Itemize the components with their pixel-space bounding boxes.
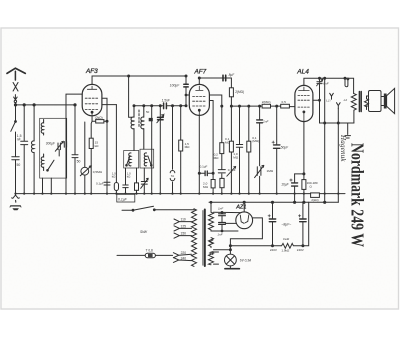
wire V x=34.1 (33, 105, 35, 194)
rail2 PSU y=202.3 (209, 201, 338, 203)
resistor 0,5 horizontal (281, 104, 290, 108)
wire V x=338.3 to rail2 (337, 109, 339, 203)
ground bus y=191 (16, 193, 346, 195)
wire V x=231.4 lower with resistor (229, 106, 233, 194)
svg-text:MΩ: MΩ (185, 145, 191, 149)
speaker cone (387, 88, 395, 113)
electrolytic 10uF (290, 174, 298, 202)
coil L1 on x=34.1 (31, 141, 34, 153)
AF3 grid wire left (66, 94, 82, 194)
svg-text:50: 50 (77, 160, 81, 164)
secondary HT winding (209, 212, 214, 231)
svg-text:1,5nF: 1,5nF (162, 98, 171, 102)
stub coil box bottoms to bus (43, 178, 52, 194)
voltage tap 150 (174, 233, 192, 238)
capacitor on x=221.8 (218, 170, 225, 173)
resistor on x=231.4 (229, 88, 233, 106)
pot arrow on x=231.4 (227, 166, 236, 176)
svg-text:TA: TA (171, 174, 175, 178)
secondary 4V winding 1 (209, 238, 214, 248)
AZ1 plate lead up (243, 202, 245, 212)
AF3 internals (85, 86, 99, 116)
coil L3 in box (41, 154, 43, 171)
B+ vertical x=324.7 (324, 78, 326, 202)
output transformer secondary (365, 96, 369, 110)
grid capacitor 100pF vertical at x=186 (184, 75, 190, 107)
svg-text:220: 220 (181, 251, 187, 255)
voltage tap 220 fuse feed (173, 253, 191, 258)
resistor on x=221.8 (220, 143, 224, 154)
svg-text:100µF: 100µF (170, 84, 180, 88)
tone capacitor on rail E (317, 78, 323, 123)
svg-text:kΩ: kΩ (127, 174, 131, 178)
svg-text:(2kΩ): (2kΩ) (95, 116, 103, 120)
svg-text:150: 150 (181, 232, 187, 236)
svg-text:240V: 240V (270, 248, 277, 252)
AF3 cathode resistor 2k (92, 116, 108, 123)
power transformer primary (192, 209, 197, 267)
wave range box 1 (124, 151, 139, 169)
svg-text:300µF: 300µF (46, 141, 55, 145)
coil in box2 (144, 153, 146, 166)
capacitor on x=75 (72, 155, 78, 158)
filament stub arrows (214, 252, 219, 264)
mains switch (122, 206, 194, 211)
resistor on x=116.7 near bus (114, 105, 118, 194)
svg-text:Feld: Feld (283, 237, 289, 241)
svg-text:110: 110 (181, 218, 186, 222)
svg-text:1,9kΩ: 1,9kΩ (281, 249, 290, 253)
capacitor antenna series (12, 157, 19, 194)
antenna connector arrow (14, 95, 18, 105)
coil L2 in box (41, 120, 43, 136)
transformer core (204, 210, 206, 267)
blade in box1 (126, 156, 130, 166)
antenna spark-gap X (13, 83, 18, 92)
cathode resistor 160-180 (302, 180, 306, 190)
svg-text:AF3: AF3 (85, 68, 98, 75)
AZ1 output lead (230, 218, 262, 254)
speaker magnet bar (381, 94, 387, 109)
voltage tap 240 (173, 258, 191, 263)
AL4 screen stub (313, 99, 320, 101)
svg-text:~8µF~: ~8µF~ (281, 222, 291, 226)
svg-text:2(kΩ): 2(kΩ) (311, 198, 318, 202)
HT top lead to AZ1 (210, 201, 240, 212)
capacitor right edge of box (64, 142, 66, 148)
voltage tap 110 (174, 219, 192, 224)
matching box on x=344 (345, 78, 349, 87)
output transformer core (359, 92, 361, 112)
bandfilter coil secondary (141, 106, 144, 149)
svg-text:0,1µF: 0,1µF (96, 182, 104, 186)
electrolytic 8uF on rail C (223, 75, 226, 81)
bandfilter coil primary (131, 106, 134, 151)
wire antenna down (15, 105, 17, 121)
svg-text:240V: 240V (297, 248, 304, 252)
chassis mark (345, 123, 351, 138)
svg-text:240: 240 (181, 257, 187, 261)
wire V x=239.5 with capacitor (236, 106, 242, 194)
svg-text:nF: nF (17, 138, 21, 142)
trimmer potentiometer mid (255, 165, 264, 177)
cap stub left of box1 (123, 168, 128, 194)
svg-text:kΩ: kΩ (112, 174, 116, 178)
speaker plug fork L1 (330, 93, 334, 99)
svg-text:50µF: 50µF (281, 145, 289, 149)
svg-text:2(MΩ): 2(MΩ) (235, 90, 244, 94)
smoothing cap 8uF no1 (268, 202, 276, 246)
svg-text:160-180: 160-180 (307, 181, 318, 185)
speaker frame (367, 91, 382, 112)
coil box (screened antenna coil unit) (40, 118, 67, 178)
svg-text:Nordmark 249 W: Nordmark 249 W (347, 143, 368, 248)
pickup connector TA on x=172.5 (170, 106, 175, 194)
resistor 2M horizontal (262, 104, 270, 108)
switch S1 antenna (11, 121, 17, 157)
coupling link cap 0,1uF (198, 171, 214, 176)
potentiometer volume (80, 166, 91, 176)
svg-text:L2: L2 (344, 98, 348, 102)
lamp feed from 4V winding (210, 240, 231, 255)
transformer return rail F y=123 (320, 122, 354, 124)
fuse line (117, 254, 173, 256)
wave switch blade in box (47, 160, 54, 171)
wire V x=276.7 with electrolytic 50uF (272, 106, 280, 194)
anode rail D y=106.1 (221, 105, 295, 107)
svg-text:50: 50 (146, 110, 150, 114)
blade in box2 (148, 156, 152, 166)
AF3 screen wire right (102, 98, 117, 193)
svg-text:T 0,8: T 0,8 (146, 249, 153, 253)
svg-text:1MΩ: 1MΩ (267, 169, 274, 173)
antenna (7, 68, 25, 73)
anode stub into coil top (129, 76, 132, 117)
output transformer primary zigzag (351, 93, 356, 123)
capacitor on x=24.2 (21, 141, 28, 144)
svg-text:(MΩ): (MΩ) (252, 139, 259, 143)
filament caps stack (219, 212, 237, 232)
svg-text:MΩ: MΩ (214, 156, 220, 160)
svg-text:L1↑: L1↑ (326, 99, 331, 103)
svg-text:10µF: 10µF (281, 183, 289, 187)
speaker plug fork L2 (337, 103, 341, 109)
svg-text:kΩ: kΩ (95, 144, 100, 148)
wire V x=24.2 (23, 105, 25, 194)
coil in box1 (129, 153, 131, 166)
secondary 4V winding 2 (209, 252, 214, 265)
svg-text:2(MΩ): 2(MΩ) (262, 100, 271, 104)
svg-text:AF7: AF7 (194, 69, 207, 76)
svg-text:0,5: 0,5 (282, 100, 287, 104)
grid leak rail y=105.8 (133, 105, 186, 107)
wire V x=75 grid line (74, 105, 76, 194)
AF7 anode rail C (198, 77, 231, 90)
svg-text:MΩ: MΩ (203, 185, 209, 189)
resistor 2k on bus (311, 193, 320, 198)
svg-text:125: 125 (181, 224, 187, 228)
svg-text:MΩ: MΩ (233, 155, 239, 159)
wire V x=259.6 with cap 2nF (257, 106, 263, 194)
svg-text:0,1µF: 0,1µF (200, 165, 208, 169)
box2 bottom trimmer to bus (141, 168, 149, 194)
wire V x=91.2 with resistor (89, 121, 93, 193)
AL4 cathode branch (295, 122, 305, 203)
resistor lower on x=221.8 (220, 178, 224, 187)
resistor lower on x=213.1 (211, 180, 215, 188)
fuse T0,8 (145, 253, 155, 257)
wire V x=83 (84, 122, 86, 194)
svg-text:1nF: 1nF (218, 207, 223, 211)
svg-text:0,1µF: 0,1µF (118, 197, 128, 201)
AF3 anode wire to bandfilter (92, 75, 186, 84)
dial lamp (225, 245, 240, 269)
svg-text:AZ1: AZ1 (235, 205, 246, 211)
resistor 1,5M on x=180.7 (179, 105, 183, 194)
earth ground symbol (10, 194, 21, 211)
svg-text:1nF: 1nF (217, 233, 222, 237)
voltage tap 125 (174, 226, 192, 231)
AL4 anode rail E (304, 77, 354, 93)
trimmer capacitor in box (55, 141, 63, 156)
svg-text:50: 50 (17, 163, 21, 167)
rectifier AZ1 (236, 212, 253, 229)
AF7 screen stubs (209, 95, 221, 194)
TA pickup jack box (117, 194, 135, 202)
wire V x=248.8 with resistor 0,1M (247, 106, 251, 194)
wave range box 2 (140, 149, 154, 168)
capacitor on x=107 near bus (104, 182, 110, 185)
HT bottom lead (211, 230, 238, 232)
tube AL4 (295, 85, 313, 121)
AL4 internals (298, 87, 310, 122)
box1 bottom to bus with resistor (135, 168, 139, 194)
svg-text:AL4: AL4 (296, 68, 309, 75)
tube AF7 (189, 84, 209, 115)
AF7 cathode to bus (198, 115, 200, 193)
series capacitor 1,5nF on rail (164, 103, 167, 109)
svg-text:Hagenuk: Hagenuk (339, 134, 347, 162)
svg-text:0,5MΩ: 0,5MΩ (93, 170, 103, 174)
wire V x=152.8 with block capacitor (149, 106, 153, 194)
AF7 internals (193, 86, 207, 115)
core dashed (138, 110, 140, 128)
wire V x=160.3 with variable pad (157, 106, 164, 194)
field coil resistor Feld (230, 202, 308, 248)
tube AF3 (82, 84, 102, 115)
node rail A top-left y=104.9 (14, 104, 76, 106)
bus junction dots (14, 193, 339, 195)
svg-text:6V 0,3A: 6V 0,3A (240, 259, 251, 263)
svg-text:2nF: 2nF (262, 120, 269, 124)
smoothing cap 8uF no2 (298, 202, 306, 246)
svg-text:SkW: SkW (140, 230, 148, 234)
